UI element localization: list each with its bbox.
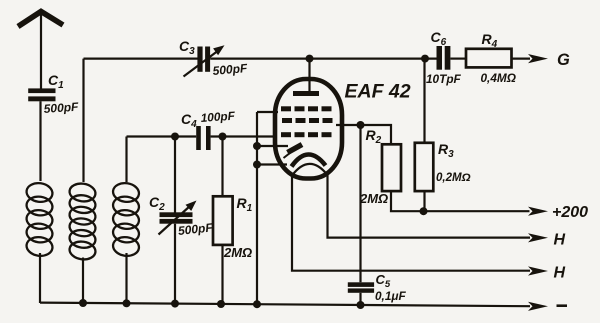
wire screen line down to C5 bbox=[359, 125, 361, 282]
resistor R1 bbox=[213, 196, 233, 245]
wire grid-row riser to coil L3 bbox=[125, 137, 127, 183]
terminal arrow minus bbox=[528, 302, 548, 311]
tube grid g1 row bbox=[281, 132, 332, 137]
tube anode plate bbox=[293, 91, 319, 96]
junction node (C2 / rail) bbox=[171, 300, 179, 308]
wire C2 branch lower bbox=[174, 224, 176, 304]
tube grid g3 row bbox=[281, 106, 332, 111]
junction node (cathode line / rail) bbox=[253, 300, 261, 308]
wire top rail C3 to C6 bbox=[210, 57, 436, 59]
svg-text:500pF: 500pF bbox=[43, 100, 79, 116]
svg-text:10TpF: 10TpF bbox=[426, 72, 462, 86]
inductor L2 bbox=[68, 182, 96, 261]
svg-text:2MΩ: 2MΩ bbox=[359, 191, 388, 206]
tube cathode bbox=[292, 154, 326, 166]
junction node (C6 / R3) bbox=[421, 55, 429, 63]
wire g3 stub bbox=[257, 111, 278, 113]
wire C6 node riser to R3 bbox=[423, 59, 425, 143]
wire cathode stub bbox=[257, 163, 287, 165]
ground rail (minus line) bbox=[40, 303, 530, 307]
capacitor C5 bbox=[348, 282, 374, 293]
variable capacitor C2 bbox=[159, 201, 197, 235]
terminal arrow H1 bbox=[528, 233, 548, 242]
wire L3 to ground rail bbox=[125, 253, 127, 304]
inductor L1 bbox=[25, 181, 53, 257]
capacitor C6 bbox=[437, 46, 451, 70]
wire R1 branch lower bbox=[221, 245, 223, 304]
wire R2 bottom to +200 rail bbox=[391, 191, 530, 211]
junction node (diode stub) bbox=[253, 142, 261, 150]
junction node (R1 / rail) bbox=[217, 300, 225, 308]
wire top-rail riser to coil L2 bbox=[82, 59, 84, 182]
svg-text:100pF: 100pF bbox=[200, 109, 236, 125]
wire grid row (C4 to tube g1) bbox=[211, 135, 277, 137]
junction node (R3 / +200) bbox=[420, 207, 428, 215]
svg-text:H: H bbox=[554, 232, 566, 249]
wire L2 to ground rail bbox=[82, 258, 84, 304]
junction node (C2 branch) bbox=[171, 133, 179, 141]
terminal arrow +200 bbox=[528, 207, 548, 216]
wire heater lead 2 (tube to H) bbox=[292, 175, 530, 271]
tube grid g2 row bbox=[282, 118, 333, 123]
junction node (C5 / rail) bbox=[357, 301, 365, 309]
junction node (L3 / rail) bbox=[123, 299, 131, 307]
tube U1 EAF42 envelope bbox=[275, 79, 342, 179]
label minus bbox=[557, 304, 568, 307]
antenna bbox=[18, 12, 63, 89]
resistor R3 bbox=[415, 143, 434, 191]
wire C5 to ground rail bbox=[359, 293, 361, 305]
wire screen stub tube to R2 node bbox=[336, 124, 361, 126]
resistor R4 bbox=[466, 49, 512, 68]
capacitor C4 bbox=[196, 126, 210, 150]
resistor R2 bbox=[382, 144, 401, 191]
inductor L3 bbox=[112, 181, 140, 257]
variable capacitor C3 bbox=[184, 45, 225, 76]
svg-text:0,2MΩ: 0,2MΩ bbox=[436, 172, 471, 184]
svg-text:0,1μF: 0,1μF bbox=[375, 289, 407, 303]
junction node (cathode stub) bbox=[253, 161, 261, 169]
terminal arrow H2 bbox=[528, 266, 548, 275]
wire R4 to terminal G bbox=[512, 57, 531, 59]
wire top rail left (riser to C3) bbox=[84, 57, 198, 59]
wire C1 to coil L1 bbox=[39, 101, 41, 181]
wire R3 bottom to +200 rail bbox=[423, 191, 425, 211]
svg-text:0,4MΩ: 0,4MΩ bbox=[481, 71, 516, 85]
wire R2 node to R2 top bbox=[361, 125, 392, 144]
wire C6 to R4 bbox=[451, 57, 467, 59]
tube heater bbox=[292, 164, 328, 176]
wire cathode/g3 line vertical bbox=[256, 112, 258, 304]
junction node (anode / top rail) bbox=[306, 55, 314, 63]
junction node (R1 branch) bbox=[219, 133, 227, 141]
svg-text:2MΩ: 2MΩ bbox=[223, 245, 252, 260]
tube diode anode bbox=[284, 145, 303, 159]
wire anode lead bbox=[308, 59, 310, 92]
svg-text:EAF 42: EAF 42 bbox=[345, 81, 411, 103]
wire heater lead 1 (tube to H) bbox=[328, 174, 531, 238]
wire diode-anode stub bbox=[257, 145, 288, 147]
svg-text:+200: +200 bbox=[552, 204, 588, 221]
svg-text:G: G bbox=[557, 51, 570, 69]
wire L1 to ground rail bbox=[39, 253, 41, 303]
terminal arrow G bbox=[528, 54, 548, 63]
wire C2 branch upper bbox=[174, 137, 176, 213]
wire R1 branch upper bbox=[221, 137, 223, 197]
capacitor C1 bbox=[28, 88, 55, 101]
junction node (L2 / rail) bbox=[79, 299, 87, 307]
wire grid row (L3 corner to C4) bbox=[127, 135, 197, 137]
svg-text:H: H bbox=[554, 265, 566, 282]
junction node (screen / R2) bbox=[357, 121, 365, 129]
